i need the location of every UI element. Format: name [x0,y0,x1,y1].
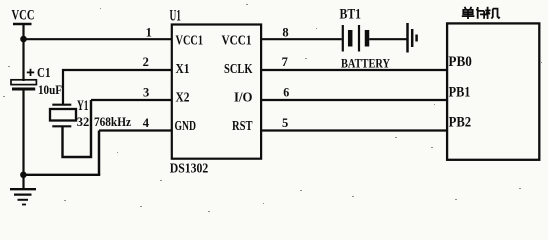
svg-text:U1: U1 [170,7,182,24]
svg-text:PB2: PB2 [449,114,472,130]
ground symbol right bar small [415,35,418,42]
IC U1 part number DS1302 [170,162,209,177]
battery BT1 plate short 1 [348,30,353,47]
IC U1 pin label X2 [176,89,190,104]
IC U1 pin label GND [175,118,197,133]
wire pin1 horizontal [23,38,172,40]
battery BT1 plate long 1 [342,25,344,52]
svg-text:768kHz: 768kHz [94,114,131,129]
op IC U1 designator [170,7,182,24]
pin number 8 [282,25,288,39]
IC U1 pin label RST [232,118,253,133]
IC U1 pin label VCC1 right [222,32,252,47]
node junction VCC dot [20,36,27,43]
svg-text:PB1: PB1 [449,84,471,100]
IC U1 DS1302 box [172,25,261,159]
IC U1 pin label X1 [176,61,190,76]
svg-text:PB0: PB0 [448,54,472,70]
battery BT1 plate long 2 [358,25,360,52]
svg-text:VCC: VCC [12,8,35,24]
glyph 单 [465,7,472,10]
svg-text:5: 5 [282,116,288,130]
svg-text:GND: GND [175,118,197,133]
battery BT1 plate short 2 [365,30,370,47]
crystal Y1 top plate [52,104,71,106]
svg-text:3: 3 [143,86,149,100]
svg-text:6: 6 [283,86,289,100]
svg-text:Y1: Y1 [77,98,89,114]
battery BT1 designator [340,6,362,22]
ground symbol bar3 [18,199,29,201]
node VCC label [12,8,35,24]
svg-text:RST: RST [232,118,253,133]
VCC terminal bar [13,23,32,25]
svg-text:BATTERY: BATTERY [341,55,390,70]
wire battery to ground [369,38,406,40]
pin number 5 [282,116,288,130]
wire pin3 horizontal [91,99,171,101]
svg-text:SCLK: SCLK [224,61,253,76]
crystal value 768kHz [94,114,131,129]
IC U1 pin label SCLK [224,61,253,76]
pin number 1 [146,25,152,39]
crystal value 32 [77,114,90,129]
capacitor C1 label [37,66,51,81]
MCU pin label PB0 [448,54,472,70]
svg-text:2: 2 [143,55,149,69]
IC U1 pin label VCC1 left [176,32,204,47]
crystal Y1 label [77,98,89,114]
svg-text:BT1: BT1 [340,6,362,22]
wire GND pin vertical [98,131,101,176]
wire pin4 horizontal [99,129,171,131]
svg-text:I/O: I/O [234,89,253,104]
ground symbol bar4 [22,204,26,206]
ground symbol bar1 [10,188,36,190]
MCU label 单片机 glyphs [462,7,500,19]
MCU pin label PB1 [449,84,471,100]
MCU box 单片机 [447,23,539,159]
capacitor C1 value 10uF [38,82,62,97]
capacitor C1 bottom plate [12,88,35,91]
ground symbol right bar tall [406,23,409,53]
svg-text:1: 1 [146,25,152,39]
svg-text:VCC1: VCC1 [176,32,204,47]
pin number 4 [143,116,150,130]
capacitor C1 top plate [11,80,36,85]
IC U1 pin label I/O [234,89,253,104]
ground symbol bar2 [14,194,32,196]
svg-text:C1: C1 [37,66,51,81]
ground symbol right bar mid [411,29,414,47]
crystal Y1 bottom plate [52,125,71,127]
wire pin8 horizontal [261,38,342,40]
wire pin6 to PB1 [261,99,447,101]
wire pin2 horizontal [63,70,171,105]
svg-text:VCC1: VCC1 [222,32,252,47]
node junction ground dot [20,172,27,179]
svg-text:10uF: 10uF [38,82,62,97]
MCU pin label PB2 [449,114,472,130]
svg-text:X2: X2 [176,89,190,104]
svg-text:X1: X1 [176,61,190,76]
pin number 2 [143,55,149,69]
glyph 机 [485,7,490,19]
glyph 片 [476,7,484,19]
ground symbol stem [22,175,24,189]
svg-text:4: 4 [143,116,150,130]
capacitor C1 plus sign [27,71,34,73]
svg-text:DS1302: DS1302 [170,162,209,177]
wire ground bus [22,174,100,176]
svg-text:32: 32 [77,114,90,129]
pin number 7 [282,55,288,69]
wire VCC vertical upper [22,24,24,81]
wire pin7 to PB0 [261,69,447,71]
battery BT1 value BATTERY [341,55,390,70]
wire crystal bottom to X2 loop [63,100,92,157]
svg-text:7: 7 [282,55,288,69]
svg-text:8: 8 [282,25,288,39]
pin number 6 [283,86,289,100]
wire pin5 to PB2 [261,129,447,131]
crystal Y1 body [50,109,76,121]
pin number 3 [143,86,149,100]
wire capacitor to ground bus [22,89,24,175]
